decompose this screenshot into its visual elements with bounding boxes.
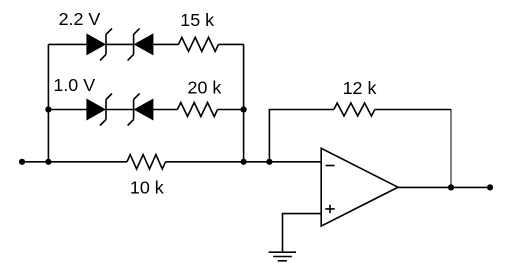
zener diode D3 (1.0 V pair, anode left)	[86, 94, 112, 126]
wire input rail with terminal	[22, 161, 127, 163]
wire right vertical (top rail to bottom rail)	[243, 44, 245, 161]
ground	[269, 252, 296, 261]
node feedback junction	[266, 159, 272, 165]
wire non-inverting input to ground	[283, 214, 322, 252]
wire R 15k to right vertical	[219, 43, 244, 45]
svg-text:15 k: 15 k	[180, 10, 214, 30]
svg-text:2.2 V: 2.2 V	[59, 9, 101, 29]
svg-text:20 k: 20 k	[188, 78, 222, 98]
wire top rail left segment	[48, 43, 86, 45]
wire D2 to R 15k	[153, 43, 178, 45]
wire between D1 and D2 cathodes	[106, 43, 134, 45]
resistor R3 10k	[127, 155, 166, 169]
op-amp U1	[321, 148, 398, 226]
wire op-amp output	[398, 186, 490, 188]
wire R 10k to op-amp inverting input	[166, 161, 322, 163]
wire left vertical (input node to top rail)	[47, 44, 49, 161]
wire between D3 and D4 cathodes	[106, 109, 134, 111]
node output terminal dot	[487, 184, 493, 190]
svg-text:12 k: 12 k	[343, 78, 377, 98]
resistor R2 20k	[177, 103, 217, 117]
resistor R1 15k	[179, 37, 219, 51]
wire feedback right vertical (thin)	[450, 109, 452, 187]
wire R 20k to right vertical	[218, 109, 244, 111]
svg-text:10 k: 10 k	[130, 178, 164, 198]
node junction left bottom	[45, 159, 51, 165]
resistor R4 12k	[334, 103, 375, 116]
node input terminal dot	[19, 159, 25, 165]
zener diode D4 (1.0 V pair, anode right)	[128, 94, 154, 126]
node output junction	[448, 184, 454, 190]
node junction left mid	[45, 106, 51, 112]
wire feedback left vertical and top segment	[269, 110, 333, 162]
wire R 12k to output corner	[375, 109, 451, 111]
wire D4 to R 20k	[153, 109, 177, 111]
wire mid rail left segment	[48, 109, 86, 111]
svg-text:1.0 V: 1.0 V	[53, 75, 95, 95]
zener diode D2 (2.2 V pair, anode right)	[128, 28, 154, 60]
node junction right bottom	[241, 159, 247, 165]
zener diode D1 (2.2 V pair, anode left)	[86, 28, 112, 60]
node junction right mid	[241, 106, 247, 112]
